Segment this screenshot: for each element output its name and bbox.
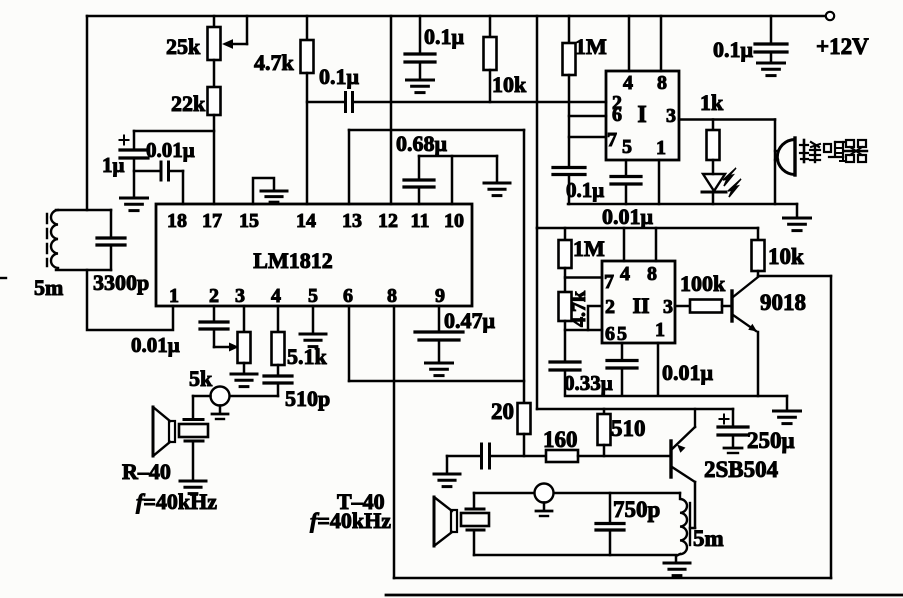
- wire pin8 I: [660, 16, 663, 71]
- label f=40kHz R-40: [136, 489, 217, 514]
- svg-text:6: 6: [605, 323, 615, 345]
- inductor 5m (receiver tank): [47, 210, 58, 268]
- svg-text:6: 6: [343, 285, 353, 307]
- wire osc bottom: [474, 554, 676, 557]
- ground (pin5 LM1812): [300, 306, 326, 347]
- wire right border down: [830, 276, 833, 578]
- svg-text:I: I: [637, 102, 646, 128]
- potentiometer circle (osc): [535, 484, 554, 517]
- svg-text:8: 8: [387, 285, 397, 307]
- potentiometer 25k: [208, 16, 221, 60]
- label 0.01u pin18: [146, 138, 195, 162]
- wire x537 +12V drop: [536, 16, 539, 228]
- ground (0.68u net): [484, 156, 510, 196]
- svg-text:0.1μ: 0.1μ: [424, 24, 465, 49]
- svg-text:0.01μ: 0.01μ: [146, 138, 195, 162]
- buzzer 蜂鸣器 symbol: [775, 138, 795, 175]
- wire pin7 II: [565, 276, 602, 279]
- label 22k: [171, 91, 206, 116]
- resistor 510: [598, 409, 611, 456]
- wire emitter down: [757, 332, 760, 396]
- svg-text:9: 9: [435, 285, 445, 307]
- svg-text:4: 4: [623, 72, 633, 94]
- label 510p: [285, 386, 330, 411]
- svg-text:4.7k: 4.7k: [568, 290, 590, 327]
- transducer T-40: [434, 493, 489, 555]
- wire ground rail I: [568, 203, 797, 206]
- svg-text:12: 12: [378, 210, 398, 232]
- resistor 4.7k: [301, 16, 314, 73]
- capacitor 3300p: [97, 238, 125, 245]
- label 0.01u II: [662, 360, 714, 385]
- wire pin3 I: [679, 118, 775, 121]
- wire pin13 net down x524: [523, 130, 526, 403]
- label T-40: [337, 489, 385, 514]
- label 25k: [166, 34, 201, 59]
- wire +12V top rail: [87, 15, 824, 18]
- wire pin1 I: [658, 160, 661, 204]
- wire pin6 stub: [348, 306, 351, 381]
- ground (coil): [664, 563, 690, 576]
- wiper 25k: [222, 16, 247, 49]
- svg-text:7: 7: [604, 271, 614, 293]
- label 100k: [680, 271, 726, 296]
- label 750p: [613, 497, 660, 522]
- label buzzer text: [800, 140, 867, 162]
- wire tank top: [56, 209, 111, 212]
- svg-text:6: 6: [612, 104, 622, 126]
- label 0.1u pin2: [319, 64, 360, 89]
- svg-text:4: 4: [271, 285, 281, 307]
- svg-text:f=40kHz: f=40kHz: [310, 508, 391, 533]
- inductor 5m (output): [680, 493, 687, 554]
- svg-text:3: 3: [663, 296, 673, 318]
- ground (0.47u): [426, 363, 453, 376]
- ground (1u): [121, 198, 148, 211]
- capacitor 0.1u (pin2 coupling): [346, 93, 353, 112]
- transistor Q 2SB504: [671, 409, 695, 482]
- pin labels 555 II: [604, 263, 673, 345]
- wire pin6-pin8 net: [349, 380, 524, 383]
- svg-text:11: 11: [411, 210, 430, 232]
- label II: [632, 293, 649, 318]
- wire tank bottom: [56, 269, 111, 272]
- svg-text:160: 160: [543, 427, 578, 452]
- label 1M osc II: [573, 236, 605, 261]
- svg-text:10k: 10k: [492, 72, 527, 97]
- wire x537 to emitter line: [536, 228, 539, 409]
- svg-text:10: 10: [444, 210, 464, 232]
- ground (rail II): [774, 396, 801, 424]
- svg-text:100k: 100k: [680, 271, 726, 296]
- capacitor 510p: [264, 376, 292, 396]
- svg-text:5k: 5k: [189, 366, 213, 391]
- label 160: [543, 427, 578, 452]
- capacitor 750p: [596, 493, 624, 555]
- potentiometer body 5k circle: [211, 387, 230, 420]
- svg-text:1M: 1M: [573, 236, 605, 261]
- potentiometer 5k (pin3): [238, 306, 251, 373]
- pin labels LM1812 bottom: [169, 285, 445, 307]
- wire tank right bottom: [110, 245, 113, 270]
- wire left rail down: [86, 16, 89, 210]
- label 0.68u: [396, 131, 448, 156]
- op-amp U-II (555) body: [602, 261, 675, 343]
- wire pin4 I: [628, 16, 631, 71]
- svg-text:0.01μ: 0.01μ: [131, 333, 180, 357]
- wire 160 to base: [578, 455, 670, 458]
- wire pin10 net: [419, 155, 497, 158]
- svg-text:0.68μ: 0.68μ: [396, 131, 448, 156]
- wire pin1 II: [657, 343, 660, 394]
- ground (pin15): [253, 178, 287, 204]
- wire 510p to pot circle: [229, 395, 278, 398]
- label 4.7k: [254, 50, 295, 75]
- label LM1812: [253, 248, 332, 273]
- wire tank right top: [110, 210, 113, 238]
- svg-text:750p: 750p: [613, 497, 660, 522]
- svg-text:5m: 5m: [693, 526, 724, 551]
- terminal +12V: [816, 12, 869, 59]
- wire pin3 to buzzer: [774, 120, 777, 205]
- capacitor 250u electrolytic: [718, 409, 748, 453]
- label 20: [491, 399, 514, 424]
- wire pin8 II: [655, 228, 658, 261]
- label 0.01u bottom: [131, 333, 180, 357]
- svg-text:9018: 9018: [760, 290, 806, 315]
- label 510: [611, 416, 646, 441]
- svg-text:18: 18: [167, 210, 187, 232]
- wire pin13 net: [349, 129, 524, 132]
- capacitor 0.33u: [550, 362, 580, 394]
- wire pin13 stub: [348, 130, 351, 204]
- capacitor 0.1u (555 I): [553, 168, 585, 205]
- svg-text:14: 14: [296, 210, 316, 232]
- wire circle to R-40: [193, 396, 211, 419]
- wire 100k to base: [722, 305, 731, 308]
- svg-text:1μ: 1μ: [102, 153, 125, 177]
- wire pin7 I: [569, 136, 606, 139]
- svg-text:5m: 5m: [34, 275, 63, 300]
- svg-text:7: 7: [607, 129, 617, 151]
- label 9018: [760, 290, 806, 315]
- svg-text:510: 510: [611, 416, 646, 441]
- svg-text:0.1μ: 0.1μ: [713, 37, 754, 62]
- label 1M osc I: [575, 34, 607, 59]
- label 1k: [700, 90, 724, 115]
- resistor 1k: [707, 120, 720, 175]
- ground (supply cap): [758, 63, 785, 76]
- label 1u: [102, 153, 125, 177]
- svg-text:0.1μ: 0.1μ: [566, 178, 604, 202]
- wire T-40 box bottom: [394, 577, 831, 580]
- label 5m (tank): [34, 275, 63, 300]
- wire pin4 II: [623, 228, 626, 261]
- svg-text:20: 20: [491, 399, 514, 424]
- svg-text:0.47μ: 0.47μ: [444, 308, 496, 333]
- label 0.1u supply: [713, 37, 754, 62]
- label 0.47u: [444, 308, 496, 333]
- ground (R-40): [180, 481, 206, 494]
- wire pin10 stub: [451, 156, 454, 204]
- resistor 10k (collector): [752, 228, 765, 276]
- wire coil bottom: [676, 554, 680, 562]
- capacitor 0.1u (mid): [405, 16, 435, 79]
- svg-text:5.1k: 5.1k: [287, 344, 328, 369]
- ground (5k pot): [231, 374, 257, 387]
- svg-text:3300p: 3300p: [93, 270, 149, 295]
- svg-text:1k: 1k: [700, 90, 724, 115]
- wire osc top: [474, 492, 680, 495]
- resistor 20: [518, 403, 531, 456]
- svg-text:LM1812: LM1812: [253, 248, 332, 273]
- wire tank to pin1: [87, 270, 173, 330]
- wiper wire to 5k pot: [214, 343, 239, 352]
- svg-text:4.7k: 4.7k: [254, 50, 295, 75]
- op-amp U-LM1812 body: [156, 204, 472, 306]
- pin labels LM1812 top: [167, 210, 464, 232]
- wire pin12 line: [390, 16, 393, 204]
- svg-text:2: 2: [209, 285, 219, 307]
- svg-text:8: 8: [657, 72, 667, 94]
- ground (base cap): [434, 456, 460, 487]
- label I: [637, 102, 646, 128]
- ground (0.1u mid): [407, 80, 434, 93]
- svg-text:+12V: +12V: [816, 34, 869, 59]
- label 10k pullup: [492, 72, 527, 97]
- svg-text:8: 8: [647, 263, 657, 285]
- wire to pin18: [182, 171, 185, 204]
- capacitor 0.01u (pin5 I): [611, 160, 641, 204]
- label 5m output: [693, 526, 724, 551]
- transistor Q 9018: [732, 277, 758, 332]
- transducer R-40: [153, 407, 208, 480]
- svg-text:1: 1: [655, 319, 665, 341]
- wire emitter/+12V line: [537, 408, 733, 411]
- wire 22k to pin17: [213, 115, 216, 204]
- resistor 10k (pin2 pullup): [484, 16, 497, 102]
- label 0.1u 555I: [566, 178, 604, 202]
- label 5.1k: [287, 344, 328, 369]
- svg-text:0.01μ: 0.01μ: [602, 204, 654, 229]
- resistor 5.1k: [272, 306, 285, 375]
- svg-text:5: 5: [308, 285, 318, 307]
- label 0.1u mid: [424, 24, 465, 49]
- capacitor 0.01u (pin18 coupling): [134, 162, 183, 180]
- resistor 160: [546, 450, 578, 462]
- capacitor 0.47u (pin9): [415, 306, 463, 362]
- capacitor 0.01u (pin5 II): [607, 343, 637, 394]
- pin labels 555 I: [607, 72, 676, 159]
- svg-text:0.01μ: 0.01μ: [662, 360, 714, 385]
- wire +12V rail II: [537, 227, 758, 230]
- svg-text:2SB504: 2SB504: [704, 457, 779, 482]
- resistor 22k: [208, 87, 221, 115]
- resistor 1M (osc I): [563, 16, 576, 167]
- svg-text:II: II: [632, 293, 649, 318]
- svg-text:15: 15: [239, 210, 259, 232]
- wire pin6 I: [569, 115, 606, 118]
- wire pin2 net: [307, 101, 606, 104]
- svg-text:250μ: 250μ: [747, 428, 795, 453]
- svg-text:R–40: R–40: [122, 459, 171, 484]
- capacitor 0.01u (pin2 bottom): [200, 306, 228, 347]
- label R-40: [122, 459, 171, 484]
- svg-text:17: 17: [202, 210, 222, 232]
- wire collector tap: [690, 482, 695, 545]
- label 250u: [747, 428, 795, 453]
- svg-text:22k: 22k: [171, 91, 206, 116]
- wire pin8 down (T-40 box left): [393, 306, 396, 578]
- svg-text:4: 4: [620, 263, 630, 285]
- svg-text:5: 5: [617, 323, 627, 345]
- LED flashing: [702, 168, 741, 204]
- resistor 100k: [690, 300, 722, 313]
- label 10k collector: [768, 244, 804, 269]
- label 0.01u pin5 I: [602, 204, 654, 229]
- capacitor 0.68u: [404, 156, 434, 204]
- svg-text:13: 13: [342, 210, 362, 232]
- scan artifact left tick: [0, 277, 6, 279]
- wire 25k-22k: [213, 60, 216, 87]
- capacitor coupling (base): [447, 444, 546, 468]
- wire pin17 node to 1u: [134, 130, 214, 133]
- label 4.7k vertical: [568, 290, 590, 327]
- label 3300p: [93, 270, 149, 295]
- op-amp U-I (555) body: [606, 71, 679, 160]
- svg-text:0.1μ: 0.1μ: [319, 64, 360, 89]
- ground (rail I): [784, 204, 811, 231]
- capacitor 0.1u (supply decoupling): [755, 16, 787, 62]
- wire collector to right border: [758, 275, 831, 278]
- label 0.33u: [564, 371, 613, 395]
- scan artifact bottom line: [386, 594, 903, 597]
- label 5k: [189, 366, 213, 391]
- svg-text:1: 1: [169, 285, 179, 307]
- svg-text:0.33μ: 0.33μ: [564, 371, 613, 395]
- resistor 4.7k (osc II): [559, 292, 572, 362]
- svg-text:3: 3: [235, 285, 245, 307]
- svg-text:25k: 25k: [166, 34, 201, 59]
- wire ground rail II: [565, 395, 787, 398]
- wire 4.7k to pin14: [306, 73, 309, 204]
- resistor 1M (osc II): [559, 228, 572, 292]
- svg-text:5: 5: [622, 136, 632, 158]
- svg-text:2: 2: [605, 296, 615, 318]
- wire pin2 II: [588, 306, 602, 330]
- svg-text:1: 1: [656, 137, 666, 159]
- label 2SB504: [704, 457, 779, 482]
- svg-text:10k: 10k: [768, 244, 804, 269]
- svg-text:510p: 510p: [285, 386, 330, 411]
- label f=40kHz T-40: [310, 508, 391, 533]
- capacitor 1u electrolytic: [120, 131, 149, 197]
- svg-text:3: 3: [666, 105, 676, 127]
- wire pin3 II: [675, 305, 690, 308]
- wire pin6 II: [565, 329, 602, 332]
- svg-text:1M: 1M: [575, 34, 607, 59]
- svg-text:f=40kHz: f=40kHz: [136, 489, 217, 514]
